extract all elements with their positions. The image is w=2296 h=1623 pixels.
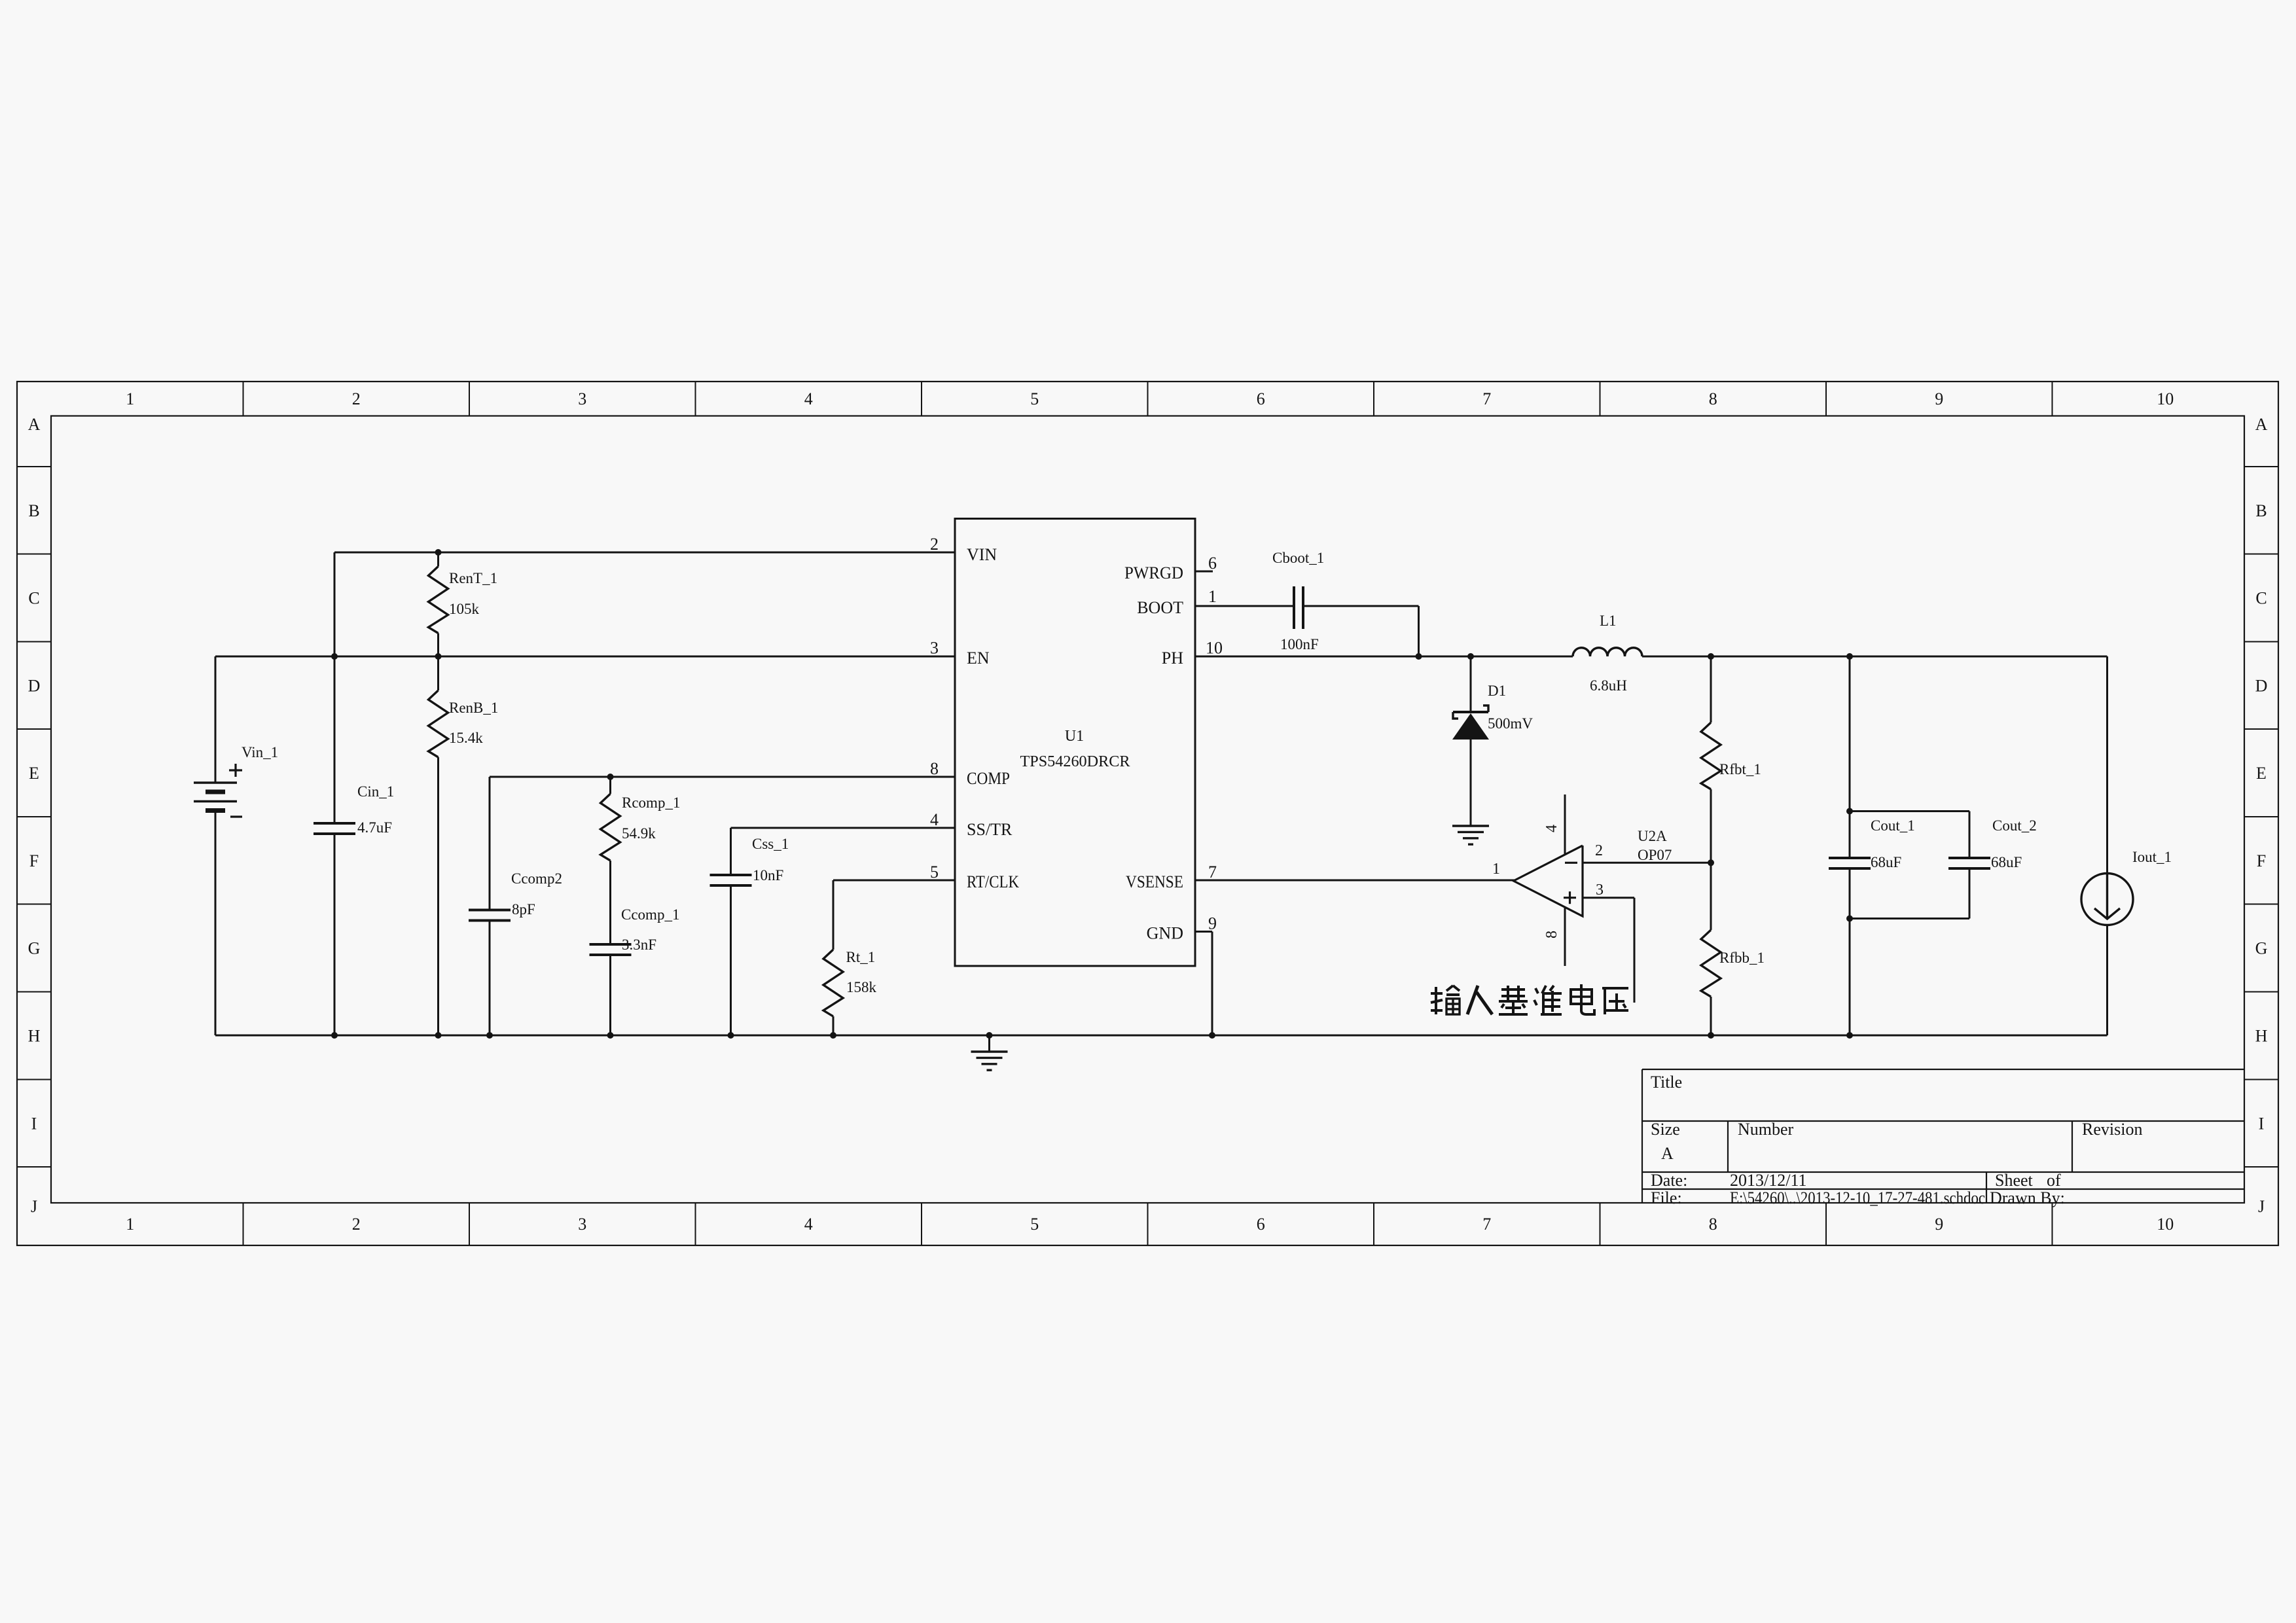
wire VSENSE net (pin 7 to U2A pin 1) <box>1195 880 1515 882</box>
svg-text:4.7uF: 4.7uF <box>357 819 392 836</box>
svg-text:1: 1 <box>126 389 134 408</box>
svg-text:4: 4 <box>930 810 939 829</box>
svg-text:Ccomp2: Ccomp2 <box>511 870 562 887</box>
wire GND pin 9 <box>1195 932 1212 1036</box>
svg-text:Sheet: Sheet <box>1995 1171 2034 1190</box>
resistor Rfbb_1 <box>1701 863 1765 1036</box>
diode D1 (schottky) <box>1452 656 1533 825</box>
capacitor Ccomp2 <box>469 870 562 921</box>
svg-text:Drawn By:: Drawn By: <box>1990 1188 2065 1207</box>
svg-text:9: 9 <box>1935 389 1943 408</box>
svg-text:6: 6 <box>1257 389 1265 408</box>
wire PWRGD pin 6 stub <box>1195 571 1213 573</box>
svg-text:2: 2 <box>352 389 361 408</box>
svg-text:10: 10 <box>2157 389 2174 408</box>
svg-text:8: 8 <box>1709 1215 1717 1234</box>
svg-text:A: A <box>1661 1144 1674 1163</box>
svg-text:GND: GND <box>1147 924 1183 943</box>
svg-text:3: 3 <box>1596 882 1604 899</box>
resistor Rt_1 <box>823 949 877 1016</box>
svg-text:VSENSE: VSENSE <box>1126 872 1183 891</box>
svg-text:A: A <box>2255 415 2268 434</box>
svg-text:Vin_1: Vin_1 <box>242 744 278 760</box>
IC U1 TPS54260DRCR <box>930 519 1223 967</box>
op-amp U2A OP07 <box>1492 825 1672 938</box>
svg-text:Number: Number <box>1738 1120 1794 1139</box>
svg-text:Ccomp_1: Ccomp_1 <box>621 906 679 923</box>
svg-text:RT/CLK: RT/CLK <box>967 872 1019 891</box>
wire U2A pin 2 to feedback node <box>1583 862 1711 864</box>
svg-text:54.9k: 54.9k <box>622 825 656 842</box>
svg-text:of: of <box>2047 1171 2061 1190</box>
svg-text:Rfbb_1: Rfbb_1 <box>1719 950 1765 966</box>
svg-text:Iout_1: Iout_1 <box>2132 849 2172 865</box>
svg-text:9: 9 <box>1208 914 1217 933</box>
svg-text:2: 2 <box>352 1215 361 1234</box>
wire VIN net <box>334 552 955 656</box>
svg-text:500mV: 500mV <box>1488 715 1533 732</box>
svg-text:Rt_1: Rt_1 <box>846 949 876 965</box>
svg-text:E: E <box>2256 764 2267 783</box>
svg-text:SS/TR: SS/TR <box>967 820 1013 839</box>
wire BOOT net <box>1195 606 1419 656</box>
svg-text:3: 3 <box>578 389 586 408</box>
capacitor Cboot_1 <box>1272 550 1324 652</box>
svg-text:C: C <box>2255 589 2267 608</box>
svg-text:U1: U1 <box>1065 728 1084 745</box>
svg-text:TPS54260DRCR: TPS54260DRCR <box>1020 753 1130 770</box>
svg-text:68uF: 68uF <box>1991 854 2022 870</box>
svg-text:1: 1 <box>1208 587 1217 606</box>
svg-text:8pF: 8pF <box>512 901 535 918</box>
wire COMP net <box>490 777 955 1035</box>
svg-text:158k: 158k <box>846 979 877 995</box>
wire U2A pin 4 <box>1564 794 1566 854</box>
svg-text:Cin_1: Cin_1 <box>357 783 394 800</box>
wire RT/CLK net <box>833 880 955 1035</box>
svg-text:4: 4 <box>804 1215 813 1234</box>
svg-text:15.4k: 15.4k <box>449 730 483 746</box>
svg-text:B: B <box>2255 501 2267 520</box>
svg-text:I: I <box>2259 1114 2265 1133</box>
svg-text:Cboot_1: Cboot_1 <box>1272 550 1324 566</box>
capacitor Css_1 <box>710 836 789 885</box>
svg-text:OP07: OP07 <box>1638 847 1672 863</box>
wire EN net <box>215 656 955 783</box>
svg-text:Cout_2: Cout_2 <box>1992 817 2037 834</box>
capacitor Ccomp_1 <box>590 906 680 1035</box>
svg-text:105k: 105k <box>449 601 480 617</box>
svg-text:PWRGD: PWRGD <box>1124 563 1183 582</box>
svg-text:EN: EN <box>967 649 990 668</box>
svg-text:10nF: 10nF <box>753 867 783 883</box>
svg-text:6: 6 <box>1257 1215 1265 1234</box>
svg-text:C: C <box>28 589 39 608</box>
svg-text:7: 7 <box>1208 863 1217 882</box>
svg-text:6.8uH: 6.8uH <box>1590 677 1627 694</box>
svg-text:Cout_1: Cout_1 <box>1871 817 1915 834</box>
svg-text:Revision: Revision <box>2082 1120 2142 1139</box>
svg-text:D: D <box>2255 676 2268 695</box>
svg-text:2: 2 <box>1595 842 1603 859</box>
svg-text:Size: Size <box>1651 1120 1680 1139</box>
svg-text:9: 9 <box>1935 1215 1943 1234</box>
svg-text:E: E <box>29 764 39 783</box>
current source Iout_1 <box>2081 656 2172 1035</box>
svg-text:10: 10 <box>1206 639 1223 658</box>
svg-text:8: 8 <box>1543 931 1560 938</box>
svg-text:RenT_1: RenT_1 <box>449 570 497 586</box>
svg-text:5: 5 <box>930 863 939 882</box>
svg-text:I: I <box>31 1114 37 1133</box>
resistor Rcomp_1 <box>601 777 681 944</box>
svg-text:COMP: COMP <box>967 769 1010 788</box>
wire SS/TR net <box>731 828 956 1035</box>
svg-text:5: 5 <box>1030 389 1039 408</box>
svg-text:H: H <box>28 1027 41 1046</box>
svg-text:D: D <box>28 676 41 695</box>
svg-text:2: 2 <box>930 535 939 554</box>
svg-text:G: G <box>2255 939 2268 958</box>
svg-text:File:: File: <box>1651 1188 1682 1207</box>
svg-text:3: 3 <box>578 1215 586 1234</box>
svg-text:100nF: 100nF <box>1280 636 1319 652</box>
svg-text:5: 5 <box>1030 1215 1039 1234</box>
svg-text:6: 6 <box>1208 554 1217 573</box>
wire GND bottom net <box>215 811 2108 1036</box>
battery Vin_1 <box>194 744 278 817</box>
svg-text:2013/12/11: 2013/12/11 <box>1730 1171 1806 1190</box>
svg-text:D1: D1 <box>1488 683 1506 699</box>
resistor RenT_1 <box>429 552 498 656</box>
svg-text:4: 4 <box>1543 825 1560 832</box>
svg-text:VIN: VIN <box>967 545 997 564</box>
svg-text:7: 7 <box>1482 389 1491 408</box>
svg-text:Title: Title <box>1651 1073 1682 1092</box>
capacitor Cout_2 <box>1948 817 2037 870</box>
node junction dots <box>331 549 1853 1039</box>
svg-text:F: F <box>2257 851 2266 870</box>
svg-text:U2A: U2A <box>1638 828 1667 844</box>
svg-text:8: 8 <box>930 759 939 778</box>
svg-text:J: J <box>2258 1197 2265 1216</box>
svg-text:RenB_1: RenB_1 <box>449 700 498 716</box>
svg-text:BOOT: BOOT <box>1137 598 1183 617</box>
svg-text:J: J <box>31 1197 37 1216</box>
svg-text:E:\54260\..\2013-12-10_17-27-4: E:\54260\..\2013-12-10_17-27-481.schdoc <box>1730 1188 1985 1207</box>
svg-text:F: F <box>29 851 39 870</box>
svg-text:PH: PH <box>1162 649 1183 668</box>
svg-text:4: 4 <box>804 389 813 408</box>
svg-text:G: G <box>28 939 41 958</box>
svg-text:H: H <box>2255 1027 2268 1046</box>
svg-text:8: 8 <box>1709 389 1717 408</box>
svg-text:3.3nF: 3.3nF <box>622 936 656 953</box>
inductor L1 <box>1573 613 1642 694</box>
wire Cout branch <box>1850 656 1969 1035</box>
wire U2A pin 8 <box>1564 908 1566 966</box>
resistor Rfbt_1 <box>1701 656 1761 863</box>
annotation text 输入基准电压 (drawn) <box>1431 984 1628 1014</box>
svg-text:A: A <box>28 415 41 434</box>
wire Cin column <box>334 656 336 1035</box>
ground (sheet) <box>971 1035 1008 1070</box>
wire PH net <box>1195 656 2108 658</box>
capacitor Cout_1 <box>1829 817 1915 870</box>
ground (D1) <box>1452 826 1489 844</box>
svg-text:1: 1 <box>1492 861 1500 878</box>
svg-text:L1: L1 <box>1600 613 1617 629</box>
capacitor Cin_1 <box>314 783 394 836</box>
svg-text:10: 10 <box>2157 1215 2174 1234</box>
resistor RenB_1 <box>429 656 499 1035</box>
svg-text:1: 1 <box>126 1215 134 1234</box>
wire U2A pin 3 <box>1583 898 1634 1003</box>
svg-text:7: 7 <box>1482 1215 1491 1234</box>
svg-text:3: 3 <box>930 639 939 658</box>
svg-text:Rcomp_1: Rcomp_1 <box>622 794 680 811</box>
svg-text:B: B <box>28 501 39 520</box>
svg-text:68uF: 68uF <box>1871 854 1901 870</box>
title block <box>1642 1069 2244 1207</box>
svg-text:Rfbt_1: Rfbt_1 <box>1719 761 1761 777</box>
svg-text:Date:: Date: <box>1651 1171 1687 1190</box>
svg-text:Css_1: Css_1 <box>752 836 789 852</box>
